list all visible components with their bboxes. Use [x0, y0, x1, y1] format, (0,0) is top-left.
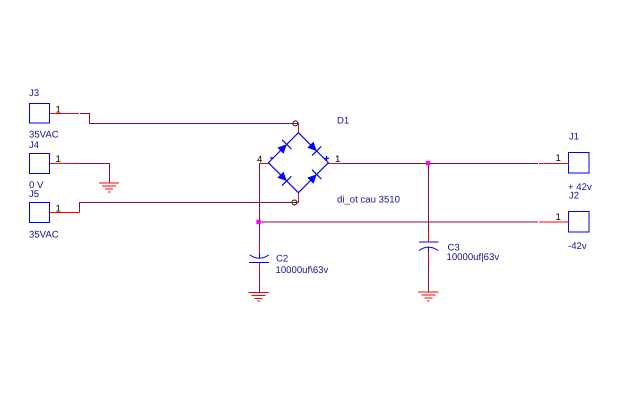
- svg-text:di_ot cau 3510: di_ot cau 3510: [337, 195, 400, 206]
- svg-text:J4: J4: [29, 140, 40, 151]
- svg-text:4: 4: [257, 155, 263, 166]
- svg-text:1: 1: [556, 153, 561, 164]
- svg-text:10000uf\63v: 10000uf\63v: [276, 265, 329, 276]
- svg-text:1: 1: [56, 105, 61, 116]
- svg-text:1: 1: [335, 154, 340, 165]
- svg-text:J1: J1: [569, 132, 579, 143]
- svg-text:1: 1: [56, 154, 61, 165]
- svg-text:J2: J2: [569, 191, 579, 202]
- svg-text:35VAC: 35VAC: [29, 130, 59, 141]
- svg-text:35VAC: 35VAC: [29, 230, 59, 241]
- svg-text:J5: J5: [29, 189, 39, 200]
- svg-text:-42v: -42v: [568, 241, 587, 252]
- svg-text:C2: C2: [276, 254, 288, 265]
- svg-text:10000uf|63v: 10000uf|63v: [447, 252, 500, 263]
- svg-text:1: 1: [556, 212, 561, 223]
- svg-text:D1: D1: [337, 116, 349, 127]
- svg-text:J3: J3: [29, 88, 39, 99]
- svg-text:1: 1: [56, 204, 61, 215]
